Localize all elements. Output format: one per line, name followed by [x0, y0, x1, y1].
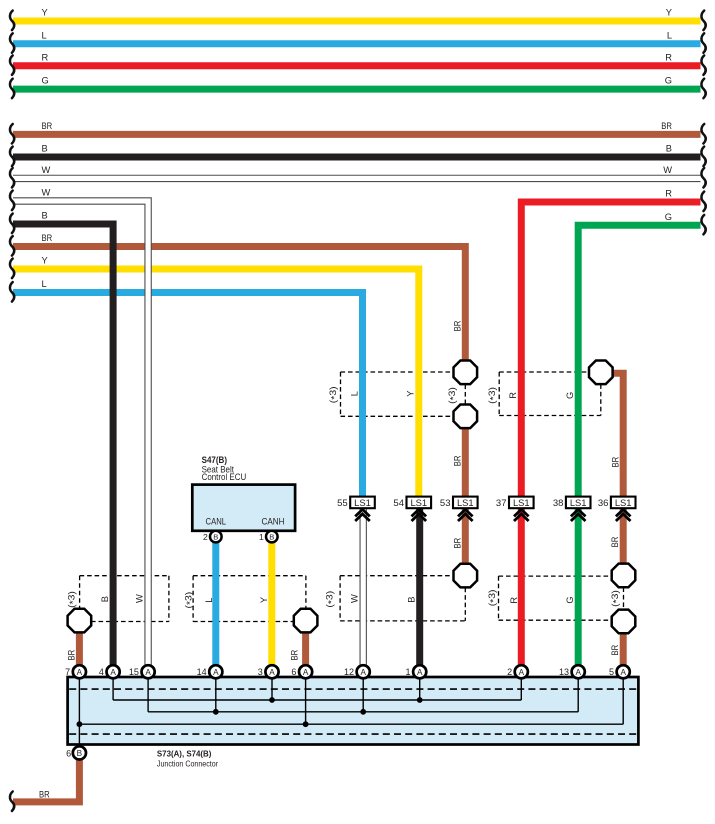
svg-text:G: G — [42, 76, 49, 86]
svg-text:R: R — [665, 52, 672, 62]
svg-text:A: A — [620, 668, 626, 677]
svg-text:BR: BR — [42, 233, 53, 243]
svg-text:LS1: LS1 — [570, 497, 587, 508]
svg-text:7: 7 — [65, 667, 70, 677]
svg-text:(*3): (*3) — [610, 590, 622, 607]
svg-text:G: G — [665, 76, 672, 86]
svg-text:B: B — [406, 597, 416, 603]
svg-text:2: 2 — [507, 667, 512, 677]
svg-text:W: W — [135, 594, 145, 603]
svg-text:Y: Y — [259, 597, 269, 603]
svg-text:G: G — [565, 596, 575, 603]
svg-text:(*3): (*3) — [183, 592, 195, 609]
svg-text:LS1: LS1 — [410, 497, 427, 508]
svg-text:A: A — [303, 668, 309, 677]
svg-text:BR: BR — [39, 790, 50, 800]
svg-text:(*3): (*3) — [67, 591, 79, 608]
svg-text:A: A — [417, 668, 423, 677]
svg-text:53: 53 — [440, 498, 451, 509]
svg-text:36: 36 — [598, 498, 609, 509]
svg-text:1: 1 — [405, 667, 410, 677]
svg-text:S47(B): S47(B) — [202, 455, 227, 465]
svg-text:A: A — [360, 668, 366, 677]
svg-text:Control ECU: Control ECU — [202, 472, 247, 482]
svg-text:L: L — [667, 30, 672, 40]
svg-text:B: B — [213, 533, 218, 542]
svg-text:(*3): (*3) — [487, 387, 499, 404]
svg-text:L: L — [350, 391, 360, 396]
svg-text:55: 55 — [337, 498, 348, 509]
svg-text:BR: BR — [661, 121, 672, 131]
svg-text:R: R — [42, 52, 49, 62]
svg-text:Y: Y — [42, 256, 48, 266]
svg-text:BR: BR — [452, 538, 462, 549]
svg-text:2: 2 — [203, 532, 208, 542]
svg-text:CANL: CANL — [206, 517, 227, 527]
svg-text:A: A — [110, 668, 116, 677]
svg-text:6: 6 — [291, 667, 296, 677]
svg-text:LS1: LS1 — [513, 497, 530, 508]
svg-text:BR: BR — [452, 455, 462, 466]
svg-text:LS1: LS1 — [354, 497, 371, 508]
svg-text:(*3): (*3) — [328, 386, 340, 403]
svg-text:A: A — [213, 668, 219, 677]
svg-text:R: R — [508, 392, 518, 399]
svg-text:BR: BR — [290, 650, 300, 661]
svg-text:(*3): (*3) — [325, 591, 337, 608]
svg-text:W: W — [663, 165, 672, 175]
svg-text:W: W — [349, 594, 359, 603]
svg-text:CANH: CANH — [261, 517, 284, 527]
svg-text:L: L — [42, 30, 47, 40]
svg-text:(*3): (*3) — [447, 387, 459, 404]
svg-text:15: 15 — [129, 667, 139, 677]
svg-text:Y: Y — [42, 8, 48, 18]
svg-text:W: W — [42, 188, 51, 198]
svg-text:BR: BR — [610, 536, 620, 547]
svg-text:3: 3 — [258, 667, 263, 677]
svg-text:5: 5 — [609, 667, 614, 677]
svg-text:B: B — [77, 749, 83, 758]
svg-text:LS1: LS1 — [457, 497, 474, 508]
svg-text:B: B — [269, 533, 274, 542]
svg-text:R: R — [509, 597, 519, 604]
svg-text:A: A — [77, 668, 83, 677]
svg-text:1: 1 — [259, 532, 264, 542]
svg-text:Y: Y — [405, 390, 415, 396]
svg-text:BR: BR — [452, 320, 462, 331]
svg-text:S73(A), S74(B): S73(A), S74(B) — [157, 749, 212, 759]
svg-text:A: A — [269, 668, 275, 677]
svg-text:(*3): (*3) — [487, 590, 499, 607]
svg-text:A: A — [575, 668, 581, 677]
svg-text:38: 38 — [553, 498, 564, 509]
svg-text:Junction Connector: Junction Connector — [157, 758, 218, 768]
svg-text:A: A — [519, 668, 525, 677]
svg-text:W: W — [42, 165, 51, 175]
svg-text:BR: BR — [611, 457, 621, 468]
svg-text:Y: Y — [666, 8, 672, 18]
svg-text:37: 37 — [496, 498, 507, 509]
svg-text:4: 4 — [99, 667, 104, 677]
svg-text:B: B — [42, 144, 48, 154]
svg-text:B: B — [666, 144, 672, 154]
svg-text:R: R — [665, 189, 672, 199]
svg-text:G: G — [665, 212, 672, 222]
svg-text:12: 12 — [344, 667, 354, 677]
svg-text:A: A — [145, 668, 151, 677]
svg-text:B: B — [100, 596, 110, 602]
svg-text:6: 6 — [66, 748, 71, 758]
svg-text:L: L — [42, 279, 47, 289]
svg-text:14: 14 — [197, 667, 207, 677]
svg-text:13: 13 — [559, 667, 569, 677]
svg-text:G: G — [565, 392, 575, 399]
svg-text:BR: BR — [610, 645, 620, 656]
svg-text:54: 54 — [393, 498, 404, 509]
svg-text:BR: BR — [42, 121, 53, 131]
svg-text:LS1: LS1 — [615, 497, 632, 508]
svg-text:B: B — [42, 211, 48, 221]
svg-text:BR: BR — [67, 650, 77, 661]
svg-text:L: L — [204, 598, 214, 603]
